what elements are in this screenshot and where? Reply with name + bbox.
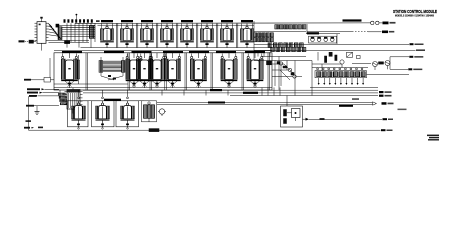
corner labels: [24, 127, 43, 129]
matrix bus horizontals: [49, 25, 96, 42]
note text: [398, 109, 407, 111]
svg-text:MODELS 1234500 / 1234700 / 123: MODELS 1234500 / 1234700 / 1234900: [395, 13, 434, 17]
discrete cluster: transistor Q13: [279, 62, 282, 65]
relay K6: [200, 20, 214, 48]
under-cell rail: [81, 47, 273, 49]
diode D20: [303, 118, 310, 121]
discrete cluster: transistor Q15: [293, 75, 296, 78]
output module box OB3: [116, 101, 139, 127]
output module box OB1: [68, 101, 89, 127]
wire: module output drops: [162, 90, 228, 96]
connector pair P1: [371, 21, 383, 24]
wire: bus W3: [230, 95, 378, 97]
wire ladder to bus: [262, 87, 280, 95]
relay K1: [100, 20, 114, 48]
wire: line 3: [254, 34, 409, 45]
wire: cell divider 3: [156, 24, 158, 48]
filter component FL1: [29, 40, 36, 43]
aux component X1: [142, 101, 157, 122]
buzzer BZ1: [158, 109, 166, 116]
wire: module divider: [150, 53, 152, 90]
solenoid driver L7: [221, 53, 238, 88]
wire: line 2 with break: [307, 31, 382, 33]
power supply box PS1: [281, 106, 303, 127]
transistor Q12: [385, 61, 390, 70]
discrete cluster: resistor R15: [291, 73, 294, 76]
relay K5: [180, 20, 194, 48]
wire: bus W1: [83, 89, 378, 91]
module box MB1 outline: [54, 51, 272, 90]
solenoid driver L2: [126, 53, 143, 88]
terminal tag J4-1: [379, 91, 392, 93]
relay K7: [220, 20, 234, 48]
DIP grid C (2x7 switches): [262, 43, 306, 57]
wire: module divider: [268, 53, 270, 90]
fuse note text: [352, 98, 359, 100]
terminal tag J3-1: [390, 56, 423, 58]
resistor R11: [335, 55, 337, 61]
discrete cluster: diode D11: [267, 61, 272, 65]
logic IC U3: [65, 88, 83, 114]
wire: cell divider 4: [176, 24, 178, 48]
top bus wire: [75, 23, 371, 25]
regulator U4: [287, 96, 300, 122]
wire: bank output: [367, 74, 410, 76]
transistor Q11: [373, 62, 378, 71]
box label: [104, 99, 121, 101]
resistor R21: [284, 119, 287, 124]
wire: module divider: [185, 53, 187, 90]
input labels row 1: [27, 88, 59, 90]
terminal tag J2-2: [382, 31, 394, 34]
discrete cluster: resistor R14: [283, 66, 287, 68]
discrete cluster wires: [272, 61, 302, 87]
ground label text: [26, 105, 59, 107]
output module box OB2: [92, 101, 115, 127]
wire: W5: [309, 118, 382, 120]
resistor R20: [284, 110, 287, 117]
diode cascade D1-D5: [49, 23, 61, 39]
terminal tag J2-1: [383, 22, 396, 25]
discrete cluster: resistor R13: [277, 62, 280, 65]
net label: OPTION BUS: [306, 24, 340, 34]
revision block: [427, 135, 439, 141]
terminal tag J3-2: [390, 57, 422, 71]
wire: rail to boxes: [60, 90, 144, 101]
solenoid driver L8: [247, 53, 264, 88]
wire: module divider: [165, 53, 167, 90]
ground: [35, 106, 40, 115]
motor relay M1: [72, 90, 86, 129]
resistor pack RP2: [89, 26, 95, 39]
wire: bus W2: [83, 92, 378, 94]
wire: bus W0: [310, 86, 378, 88]
relay K3: [140, 20, 154, 48]
wire: line 4: [254, 49, 416, 51]
transistor Q1: [65, 41, 70, 44]
solenoid driver L1: [61, 53, 78, 88]
resistor R12: [379, 62, 384, 64]
wire: module divider: [211, 53, 213, 90]
discrete cluster: transistor Q14: [288, 68, 291, 71]
terminal tag J5-1: [383, 118, 394, 120]
wire: W6 bottom: [29, 129, 381, 132]
resistor network RN2: [59, 93, 68, 105]
terminal tag J5-2: [381, 129, 393, 131]
indicator group LP1-LP4: [309, 36, 337, 43]
wire: mid cluster rails: [312, 52, 371, 71]
input labels row 3: [29, 95, 59, 97]
wire: double bus W4: [157, 102, 377, 107]
aux input Y1: [24, 58, 54, 82]
wire: module divider: [86, 53, 88, 90]
box header net labels: [62, 51, 265, 53]
transistor Q10: [340, 60, 344, 68]
wire: module divider: [242, 53, 244, 90]
wire: cell divider 5: [196, 24, 198, 48]
solenoid driver L5: [164, 53, 181, 88]
wire: left drop: [29, 97, 37, 131]
terminal tag J2-3: [410, 43, 424, 45]
terminal tag J2-4: [416, 49, 425, 51]
wire: cell divider 1: [116, 24, 118, 48]
relay K8: [240, 20, 254, 48]
resistor R10: [325, 56, 327, 63]
wire: module divider: [128, 53, 130, 90]
net label stub: [26, 120, 32, 122]
motor relay M3: [121, 90, 135, 129]
wire: cell divider 2: [136, 24, 138, 48]
input labels row 2: [27, 92, 59, 94]
capacitor C10: [357, 56, 361, 59]
wire: grid C drops: [254, 52, 312, 96]
motor relay M2: [96, 90, 110, 129]
relay contact K10: [347, 52, 353, 57]
solenoid driver L4: [149, 53, 166, 88]
net label: MAIN LINE: [343, 19, 362, 21]
diode D10: [329, 52, 332, 56]
DIP grid B (2x5 switches): [254, 33, 274, 42]
connector J1: [35, 17, 49, 51]
ribbon coil T1: [54, 57, 128, 84]
output resistor bank RB1: [315, 68, 367, 85]
wire: right divider: [253, 21, 255, 60]
resistor column R30: [77, 55, 80, 84]
matrix column stubs with net labels: [56, 14, 100, 28]
wire: cell divider 6: [216, 24, 218, 48]
terminal tag J4-3: [382, 102, 394, 105]
wire: cell divider 7: [236, 24, 238, 48]
input label J1-1: [19, 40, 29, 42]
matrix column drops: [67, 23, 95, 47]
relay K4: [160, 20, 174, 48]
resistor pack RP1: [58, 27, 62, 40]
DIP grid A (7 switches): [254, 25, 306, 32]
svg-text:STATION CONTROL MODULE: STATION CONTROL MODULE: [393, 9, 437, 14]
relay K2: [120, 20, 134, 48]
solenoid driver L3: [136, 53, 153, 88]
title: STATION CONTROL MODULE: [393, 9, 437, 18]
solenoid driver L6: [190, 53, 207, 88]
terminal tag J4-2: [379, 95, 392, 97]
